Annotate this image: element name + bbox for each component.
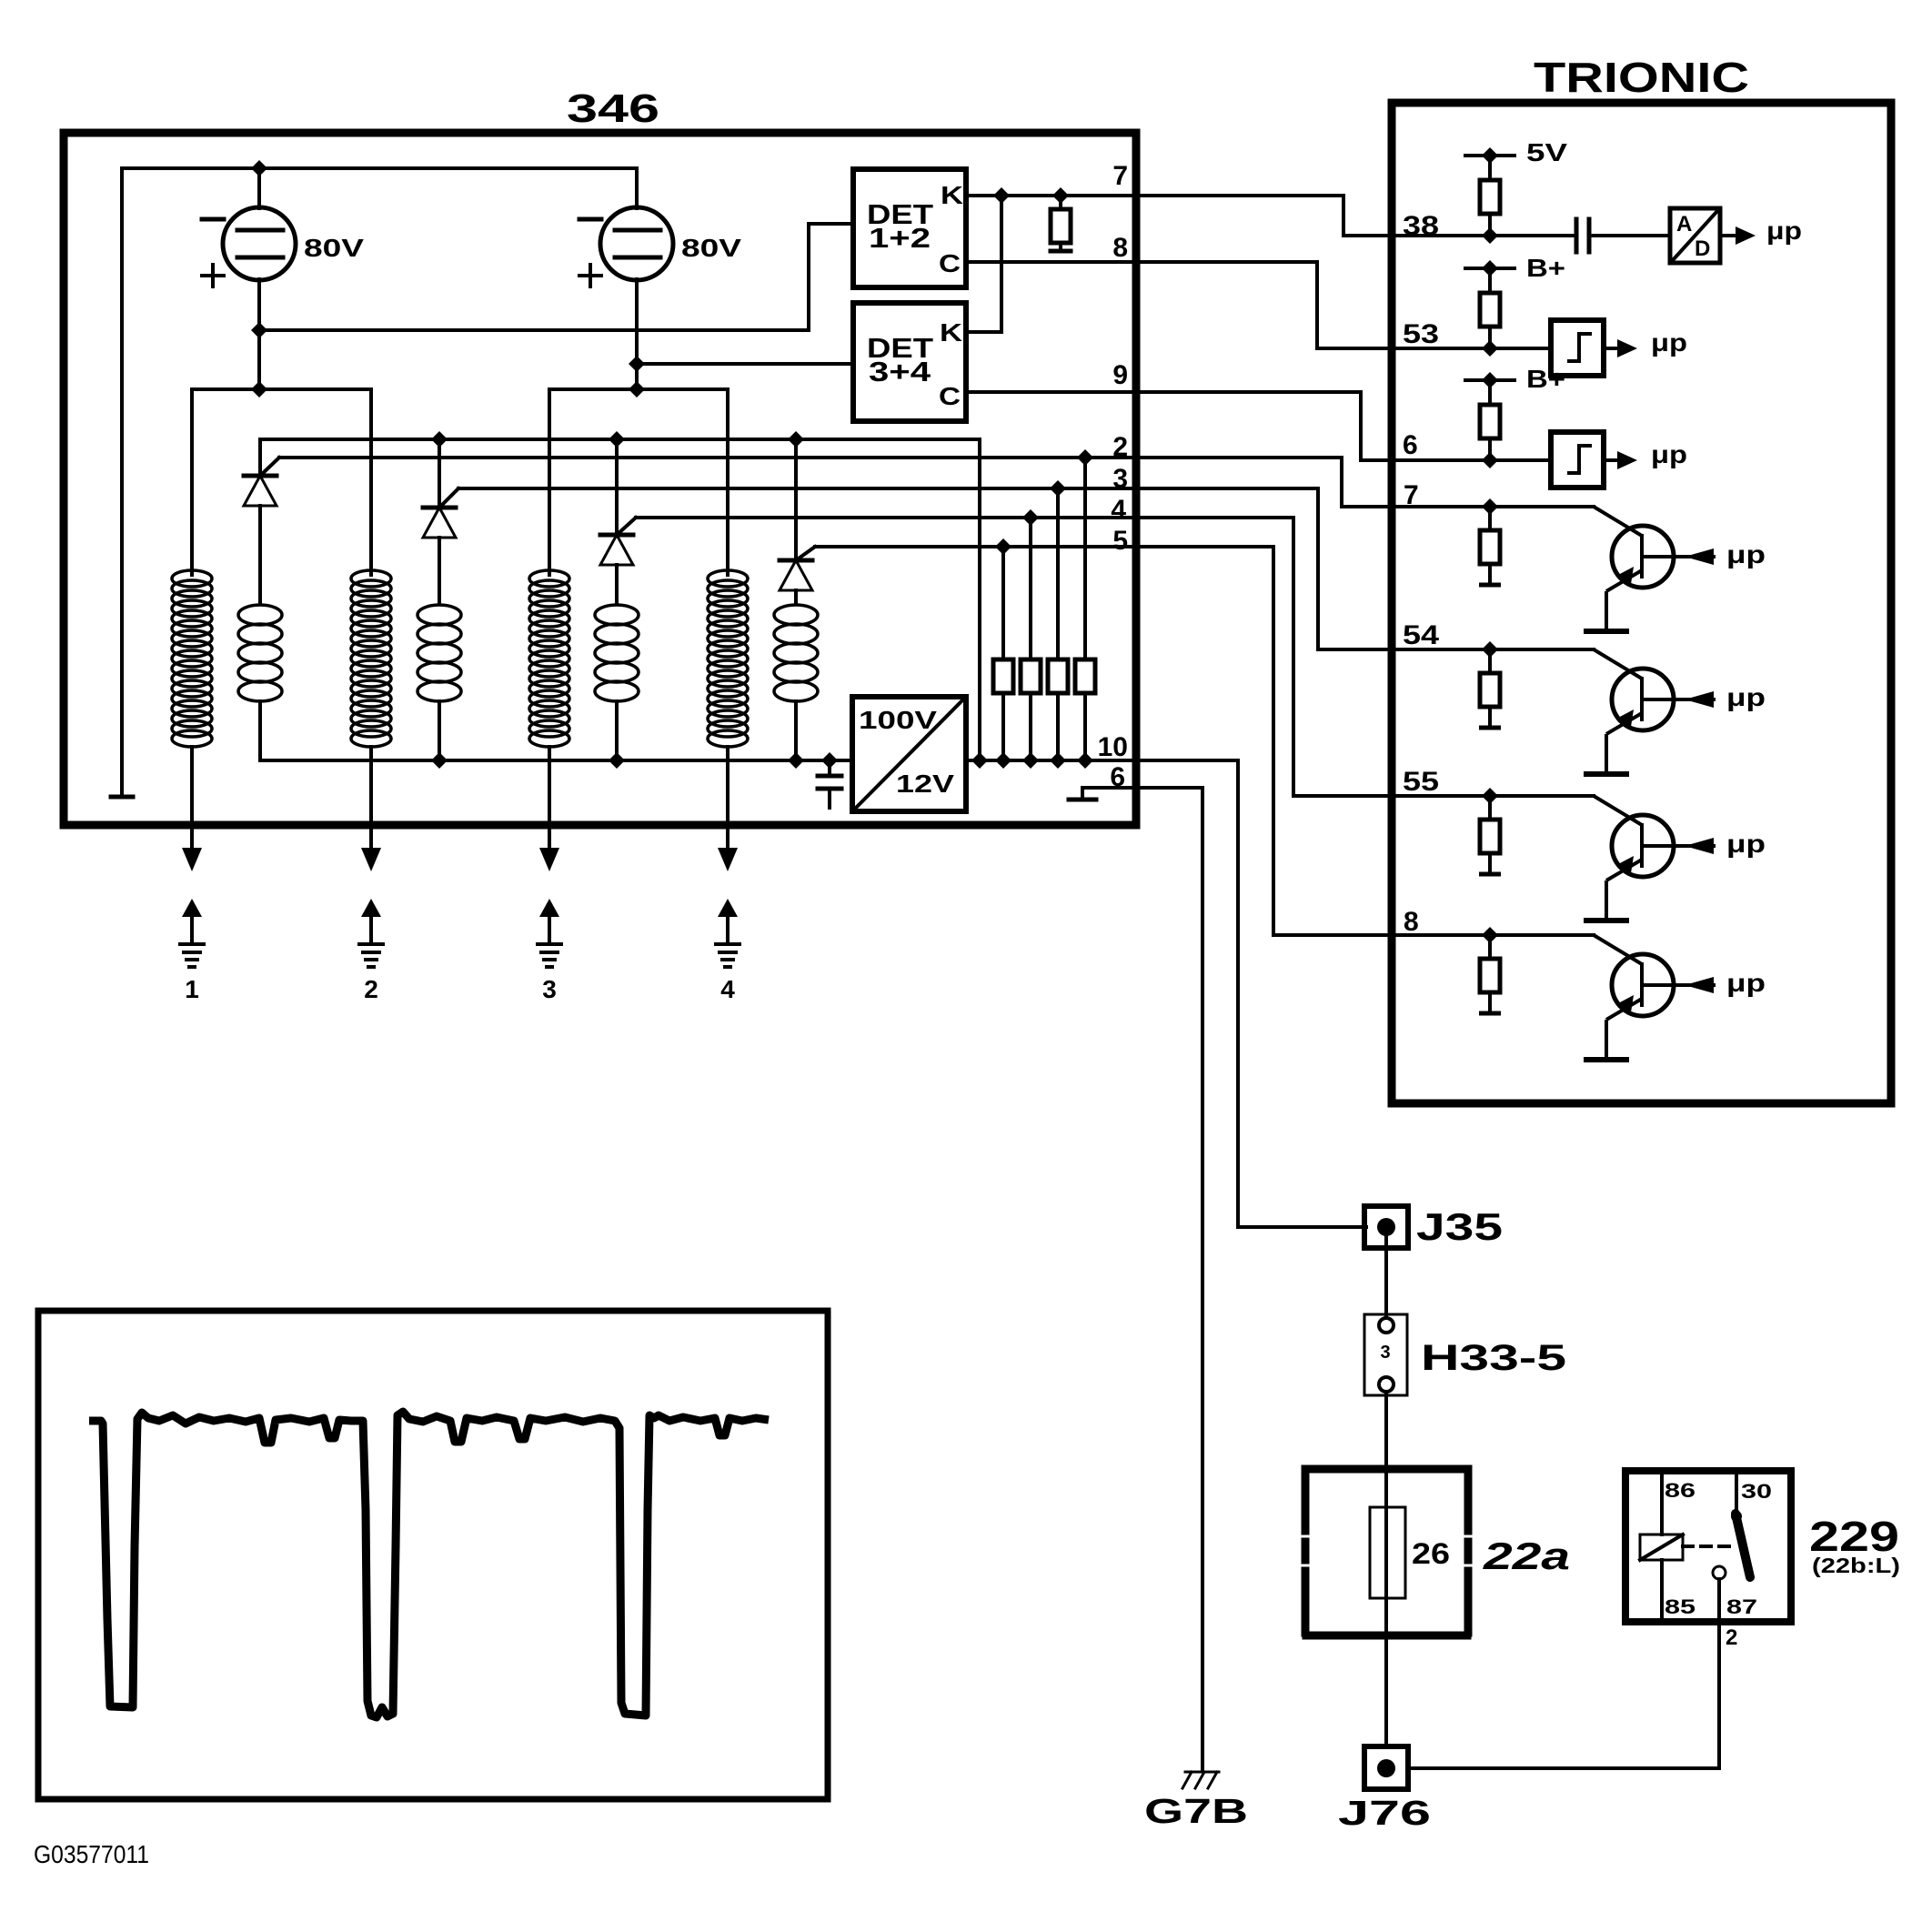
wire: gate line pin 5 — [815, 545, 1137, 548]
svg-text:3: 3 — [542, 975, 557, 1003]
voltage source B2 80V — [600, 207, 673, 280]
voltage source B1 80V — [223, 207, 296, 280]
wire: TRIONIC 53 input line — [1317, 347, 1551, 350]
node: common bus secondary4 — [788, 752, 804, 769]
svg-text:22a: 22a — [1483, 1535, 1570, 1577]
DET 1+2 detector box U1 — [853, 169, 966, 287]
wire: H33-5 to fuse 22a — [1384, 1392, 1388, 1510]
DC converter 100V/12V box U3 — [852, 697, 966, 811]
wire: primary4 top lead — [726, 389, 730, 575]
svg-text:6: 6 — [1110, 762, 1125, 792]
node: source1 / primary bus 1+2 — [251, 381, 267, 397]
svg-text:7: 7 — [1112, 161, 1128, 191]
svg-text:C: C — [939, 249, 961, 277]
relay pin 87 terminal circle — [1713, 1566, 1726, 1579]
fuse 26 element — [1370, 1507, 1405, 1598]
svg-text:G7B: G7B — [1144, 1793, 1248, 1831]
wire: gate line pin 2 — [279, 458, 1342, 507]
internal terminator bar left — [111, 795, 133, 800]
resistor R2 (pin 5 pull) — [1001, 547, 1005, 659]
node: common bus R4 — [1050, 752, 1066, 769]
oscilloscope waveform box — [38, 1311, 828, 1799]
resistor R7 (53 to B+) — [1488, 268, 1492, 293]
node: 53 line — [1482, 340, 1498, 357]
wire: primary2 top lead — [369, 389, 373, 575]
svg-text:D: D — [1695, 236, 1710, 261]
svg-text:μp: μp — [1651, 440, 1687, 468]
capacitor C1 — [828, 760, 831, 775]
connector J35 — [1364, 1206, 1408, 1248]
svg-text:8: 8 — [1112, 233, 1128, 263]
svg-text:86: 86 — [1665, 1479, 1696, 1502]
svg-text:5: 5 — [1112, 526, 1128, 556]
wire: top bus from left vertical to source 2 — [122, 166, 637, 170]
wire: 346 pin 4 to TRIONIC 55 — [1137, 518, 1393, 796]
wire: secondary3 bottom lead — [615, 701, 619, 760]
node: common bus secondary3 — [609, 752, 625, 769]
wire: A/D output arrow to microprocessor — [1720, 234, 1737, 237]
wire: thyristor4 anode to secondary4 — [794, 590, 798, 604]
resistor R11 (55 line to ground) — [1479, 796, 1501, 874]
node: 38 line — [1482, 227, 1498, 244]
svg-text:3: 3 — [1112, 464, 1128, 494]
ignition unit box 346 — [64, 133, 1136, 825]
svg-text:G03577011: G03577011 — [34, 1840, 149, 1868]
thyristor V3 — [600, 533, 633, 538]
node: cathode bus thy3 — [609, 431, 625, 448]
thyristor V1 — [244, 474, 277, 478]
wire: source1 bottom lead — [257, 279, 261, 389]
wire: thyristor2 anode to secondary2 — [438, 538, 441, 604]
svg-text:μp: μp — [1651, 328, 1687, 357]
svg-text:2: 2 — [1112, 432, 1128, 462]
wire: primary1 bottom lead to plug — [190, 747, 194, 821]
B+ supply stub (53) — [1465, 267, 1514, 270]
relay coil winding — [1660, 1471, 1664, 1535]
resistor R3 (pin 4 pull) — [1029, 518, 1032, 659]
node: common bus R5 — [1077, 752, 1093, 769]
resistor R8 (6 to B+) — [1488, 380, 1492, 405]
wire: source2 top lead — [635, 168, 639, 208]
node: 7 line — [1482, 498, 1498, 515]
ground G7B chassis symbol — [1185, 1771, 1219, 1774]
node: common bus R2 — [995, 752, 1011, 769]
schmitt trigger U6 (6) — [1551, 432, 1637, 488]
svg-text:55: 55 — [1403, 767, 1439, 797]
svg-text:2: 2 — [364, 975, 378, 1003]
svg-text:J35: J35 — [1416, 1205, 1503, 1248]
resistor R4 (pin 3 pull) — [1056, 488, 1060, 659]
svg-text:80V: 80V — [304, 234, 364, 262]
svg-text:7: 7 — [1404, 480, 1419, 510]
wire: secondary common bus left — [260, 701, 852, 760]
node: source2 / primary bus 3+4 — [629, 381, 645, 397]
node: 55 line — [1482, 788, 1498, 804]
wire: thyristor2 cathode lead — [438, 439, 441, 506]
wire: TRIONIC 38 input line — [1343, 234, 1575, 237]
node: source1 / DET1+2 feed — [251, 322, 267, 338]
relay switch blade — [1736, 1514, 1750, 1577]
wire: source2 to DET 3+4 input — [637, 362, 853, 366]
wire: J35 to H33-5 — [1384, 1248, 1388, 1317]
svg-text:K: K — [940, 318, 962, 347]
node: 5V rail — [1482, 147, 1498, 164]
ignition coil T4 primary winding — [708, 570, 748, 747]
node: pin7 line resistor R1 — [1052, 187, 1069, 204]
wire: TRIONIC 7 input line to transistor Q1 — [1342, 505, 1594, 508]
relay pin 87 lead — [1717, 1579, 1721, 1622]
spark gap and ground cylinder 3 — [536, 821, 563, 967]
wire: DET1+2 C output / pin 8 line — [966, 262, 1317, 348]
oscilloscope trace waveform — [89, 1412, 769, 1717]
wire: 346 pin 5 to TRIONIC 8 — [1137, 547, 1393, 935]
svg-text:54: 54 — [1403, 620, 1439, 650]
node: cathode bus thy2 — [431, 431, 448, 448]
A/D converter box U4 — [1670, 208, 1720, 263]
svg-text:1: 1 — [185, 975, 199, 1003]
transistor Q1 — [1584, 507, 1716, 631]
wire: thyristor3 cathode lead — [615, 439, 619, 533]
node: pin3 line R4 — [1050, 480, 1066, 497]
transistor Q4 — [1584, 935, 1716, 1060]
svg-text:μp: μp — [1726, 969, 1766, 997]
wire: gate line pin 3 — [458, 487, 1137, 490]
node: common bus R3 — [1022, 752, 1039, 769]
resistor R9 (7 line to ground) — [1479, 507, 1501, 585]
svg-text:1+2: 1+2 — [869, 222, 931, 254]
svg-text:TRIONIC: TRIONIC — [1534, 54, 1749, 101]
svg-text:5V: 5V — [1526, 138, 1567, 166]
node: common bus capacitor C1 — [821, 752, 838, 769]
svg-text:3+4: 3+4 — [869, 356, 931, 387]
svg-text:38: 38 — [1403, 211, 1439, 241]
svg-text:μp: μp — [1726, 830, 1766, 858]
wire: left vertical to internal terminator — [120, 168, 124, 796]
svg-text:9: 9 — [1112, 360, 1128, 390]
node: source2 / DET3+4 feed — [629, 356, 645, 372]
wire: J35 drop to junction box — [1384, 1227, 1388, 1248]
wire: primary1 top lead — [190, 389, 194, 575]
ignition coil T3 primary winding — [529, 570, 569, 747]
B+ supply stub (6) — [1465, 378, 1514, 382]
svg-text:30: 30 — [1741, 1480, 1772, 1503]
spark gap and ground cylinder 2 — [357, 821, 385, 967]
wire: TRIONIC 55 line to transistor Q3 — [1293, 794, 1594, 798]
svg-text:85: 85 — [1665, 1595, 1696, 1618]
wire: TRIONIC 8 line to transistor Q4 — [1273, 933, 1594, 937]
svg-text:8: 8 — [1404, 907, 1419, 937]
wire: primary4 bottom lead to plug — [726, 747, 730, 821]
connector J76 — [1364, 1746, 1408, 1789]
wire: thyristor4 cathode lead — [794, 439, 798, 558]
wire: thyristor1 cathode lead — [258, 439, 262, 474]
coupling capacitor C2 on 38 line — [1575, 219, 1579, 252]
ignition coil T3 secondary winding — [595, 605, 639, 701]
wire: pin 6 to G7B — [1137, 788, 1202, 1769]
node: common bus cathode-bus drop — [971, 752, 988, 769]
wire: 346 pin 3 to TRIONIC 54 — [1137, 488, 1393, 649]
wire: TRIONIC 54 line to transistor Q2 — [1318, 648, 1594, 651]
relay actuation dashed link — [1683, 1545, 1731, 1548]
svg-text:26: 26 — [1412, 1537, 1450, 1570]
wire: DET1+2 K output / pin 7 line — [966, 196, 1343, 236]
ignition coil T2 secondary winding — [418, 605, 461, 701]
svg-text:12V: 12V — [896, 770, 954, 798]
node: common bus secondary2 — [431, 752, 448, 769]
resistor R10 (54 line to ground) — [1479, 649, 1501, 728]
spark gap and ground cylinder 4 — [714, 821, 741, 967]
wire: DET3+4 K tie to pin7 line — [966, 196, 1001, 332]
node: B+ rail (53) — [1482, 260, 1498, 277]
svg-text:6: 6 — [1403, 430, 1418, 460]
thyristor V4 — [780, 558, 812, 563]
svg-text:80V: 80V — [681, 234, 741, 262]
5V supply stub — [1465, 154, 1514, 157]
wire: source2 bottom lead — [635, 279, 639, 389]
svg-text:2: 2 — [1726, 1625, 1737, 1650]
node: B+ rail (6) — [1482, 372, 1498, 388]
node: pin4 line R3 — [1022, 509, 1039, 526]
wire: TRIONIC 6 input line — [1361, 458, 1551, 462]
ignition coil T1 primary winding — [172, 570, 212, 747]
svg-text:H33-5: H33-5 — [1421, 1338, 1566, 1378]
relay 229 box — [1625, 1471, 1791, 1622]
wire: secondary2 bottom lead — [438, 701, 441, 760]
svg-text:346: 346 — [567, 86, 659, 131]
node: 8 line — [1482, 927, 1498, 943]
ignition coil T1 secondary winding — [238, 605, 282, 701]
wire: J76 to relay 229 pin 87 — [1408, 1622, 1719, 1768]
resistor R5 (pin 2 pull) — [1083, 458, 1087, 659]
svg-text:3: 3 — [1380, 1343, 1390, 1363]
svg-text:μp: μp — [1726, 540, 1766, 569]
wire: secondary4 bottom lead — [794, 701, 798, 760]
schmitt trigger U5 (53) — [1551, 320, 1637, 376]
svg-text:100V: 100V — [859, 706, 937, 734]
wire: primaries 1+2 top bus — [192, 387, 371, 391]
svg-text:μp: μp — [1766, 216, 1802, 245]
svg-text:B+: B+ — [1526, 254, 1565, 282]
fuse holder H33-5 — [1364, 1314, 1407, 1395]
svg-text:53: 53 — [1403, 319, 1439, 349]
node: source bus junction — [251, 160, 267, 176]
wire: gate line pin 4 — [636, 516, 1137, 519]
resistor R12 (8 line to ground) — [1479, 935, 1501, 1013]
wire: secondary common bus right / pin 10 line — [966, 760, 1366, 1227]
thyristor V2 — [423, 506, 456, 510]
svg-text:B+: B+ — [1526, 365, 1565, 393]
transistor Q3 — [1584, 796, 1716, 921]
svg-text:C: C — [939, 382, 961, 410]
node: pin5 line R2 — [995, 538, 1011, 555]
TRIONIC ECU box — [1392, 103, 1891, 1103]
wire: thyristor1 anode to secondary1 — [258, 506, 262, 604]
relay pin 30 lead — [1735, 1471, 1738, 1514]
spark gap and ground cylinder 1 — [178, 821, 206, 967]
svg-text:10: 10 — [1098, 732, 1128, 762]
node: 54 line — [1482, 641, 1498, 658]
wire: source1 to DET 1+2 input — [259, 224, 853, 330]
fusebox 22a dashed border — [1306, 1465, 1467, 1474]
ignition coil T2 primary winding — [351, 570, 391, 747]
wire: DET3+4 C output / pin 9 line — [966, 392, 1361, 460]
wire: primary3 top lead — [548, 389, 551, 575]
svg-text:87: 87 — [1726, 1595, 1757, 1618]
wire: pin 6 ground stub — [1082, 788, 1137, 799]
svg-text:4: 4 — [1111, 495, 1126, 525]
node: pin7 line DET3+4 K — [993, 187, 1010, 204]
wire: primary2 bottom lead to plug — [369, 747, 373, 821]
svg-text:J76: J76 — [1338, 1795, 1431, 1833]
node: cathode bus thy4 — [788, 431, 804, 448]
svg-text:(22b:L): (22b:L) — [1812, 1554, 1900, 1577]
svg-text:K: K — [941, 181, 963, 209]
node: 6 line — [1482, 452, 1498, 468]
wire: primary3 bottom lead to plug — [548, 747, 551, 821]
transistor Q2 — [1584, 649, 1716, 774]
svg-text:A: A — [1676, 212, 1692, 236]
resistor R1 on pin7 line — [1059, 196, 1062, 209]
node: pin2 line R5 — [1077, 449, 1093, 466]
ignition coil T4 secondary winding — [774, 605, 818, 701]
wire: primaries 3+4 top bus — [549, 387, 728, 391]
DET 3+4 detector box U2 — [853, 303, 966, 421]
wire: source1 top lead — [257, 168, 261, 208]
svg-text:4: 4 — [720, 975, 735, 1003]
wire: thyristor3 anode to secondary3 — [615, 565, 619, 604]
wire: thyristor cathode bus — [260, 439, 980, 760]
svg-text:μp: μp — [1726, 683, 1766, 711]
resistor R6 (38 to 5V) — [1488, 156, 1492, 180]
